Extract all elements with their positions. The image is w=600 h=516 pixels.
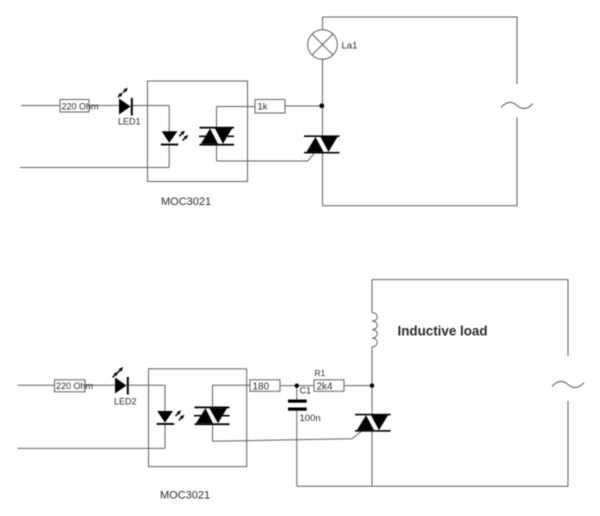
svg-text:2k4: 2k4 <box>317 381 334 392</box>
svg-text:LED1: LED1 <box>118 116 141 126</box>
svg-text:1k: 1k <box>258 102 268 113</box>
svg-text:La1: La1 <box>342 40 358 51</box>
svg-text:R1: R1 <box>315 368 326 378</box>
svg-text:220 Ohm: 220 Ohm <box>62 101 99 111</box>
svg-text:180: 180 <box>253 381 270 392</box>
svg-text:Inductive load: Inductive load <box>398 324 488 339</box>
svg-text:220 Ohm: 220 Ohm <box>56 381 93 391</box>
svg-text:MOC3021: MOC3021 <box>161 196 211 208</box>
svg-text:LED2: LED2 <box>114 396 137 406</box>
svg-text:C1: C1 <box>300 386 312 396</box>
svg-text:MOC3021: MOC3021 <box>160 490 210 502</box>
svg-text:100n: 100n <box>300 413 321 424</box>
